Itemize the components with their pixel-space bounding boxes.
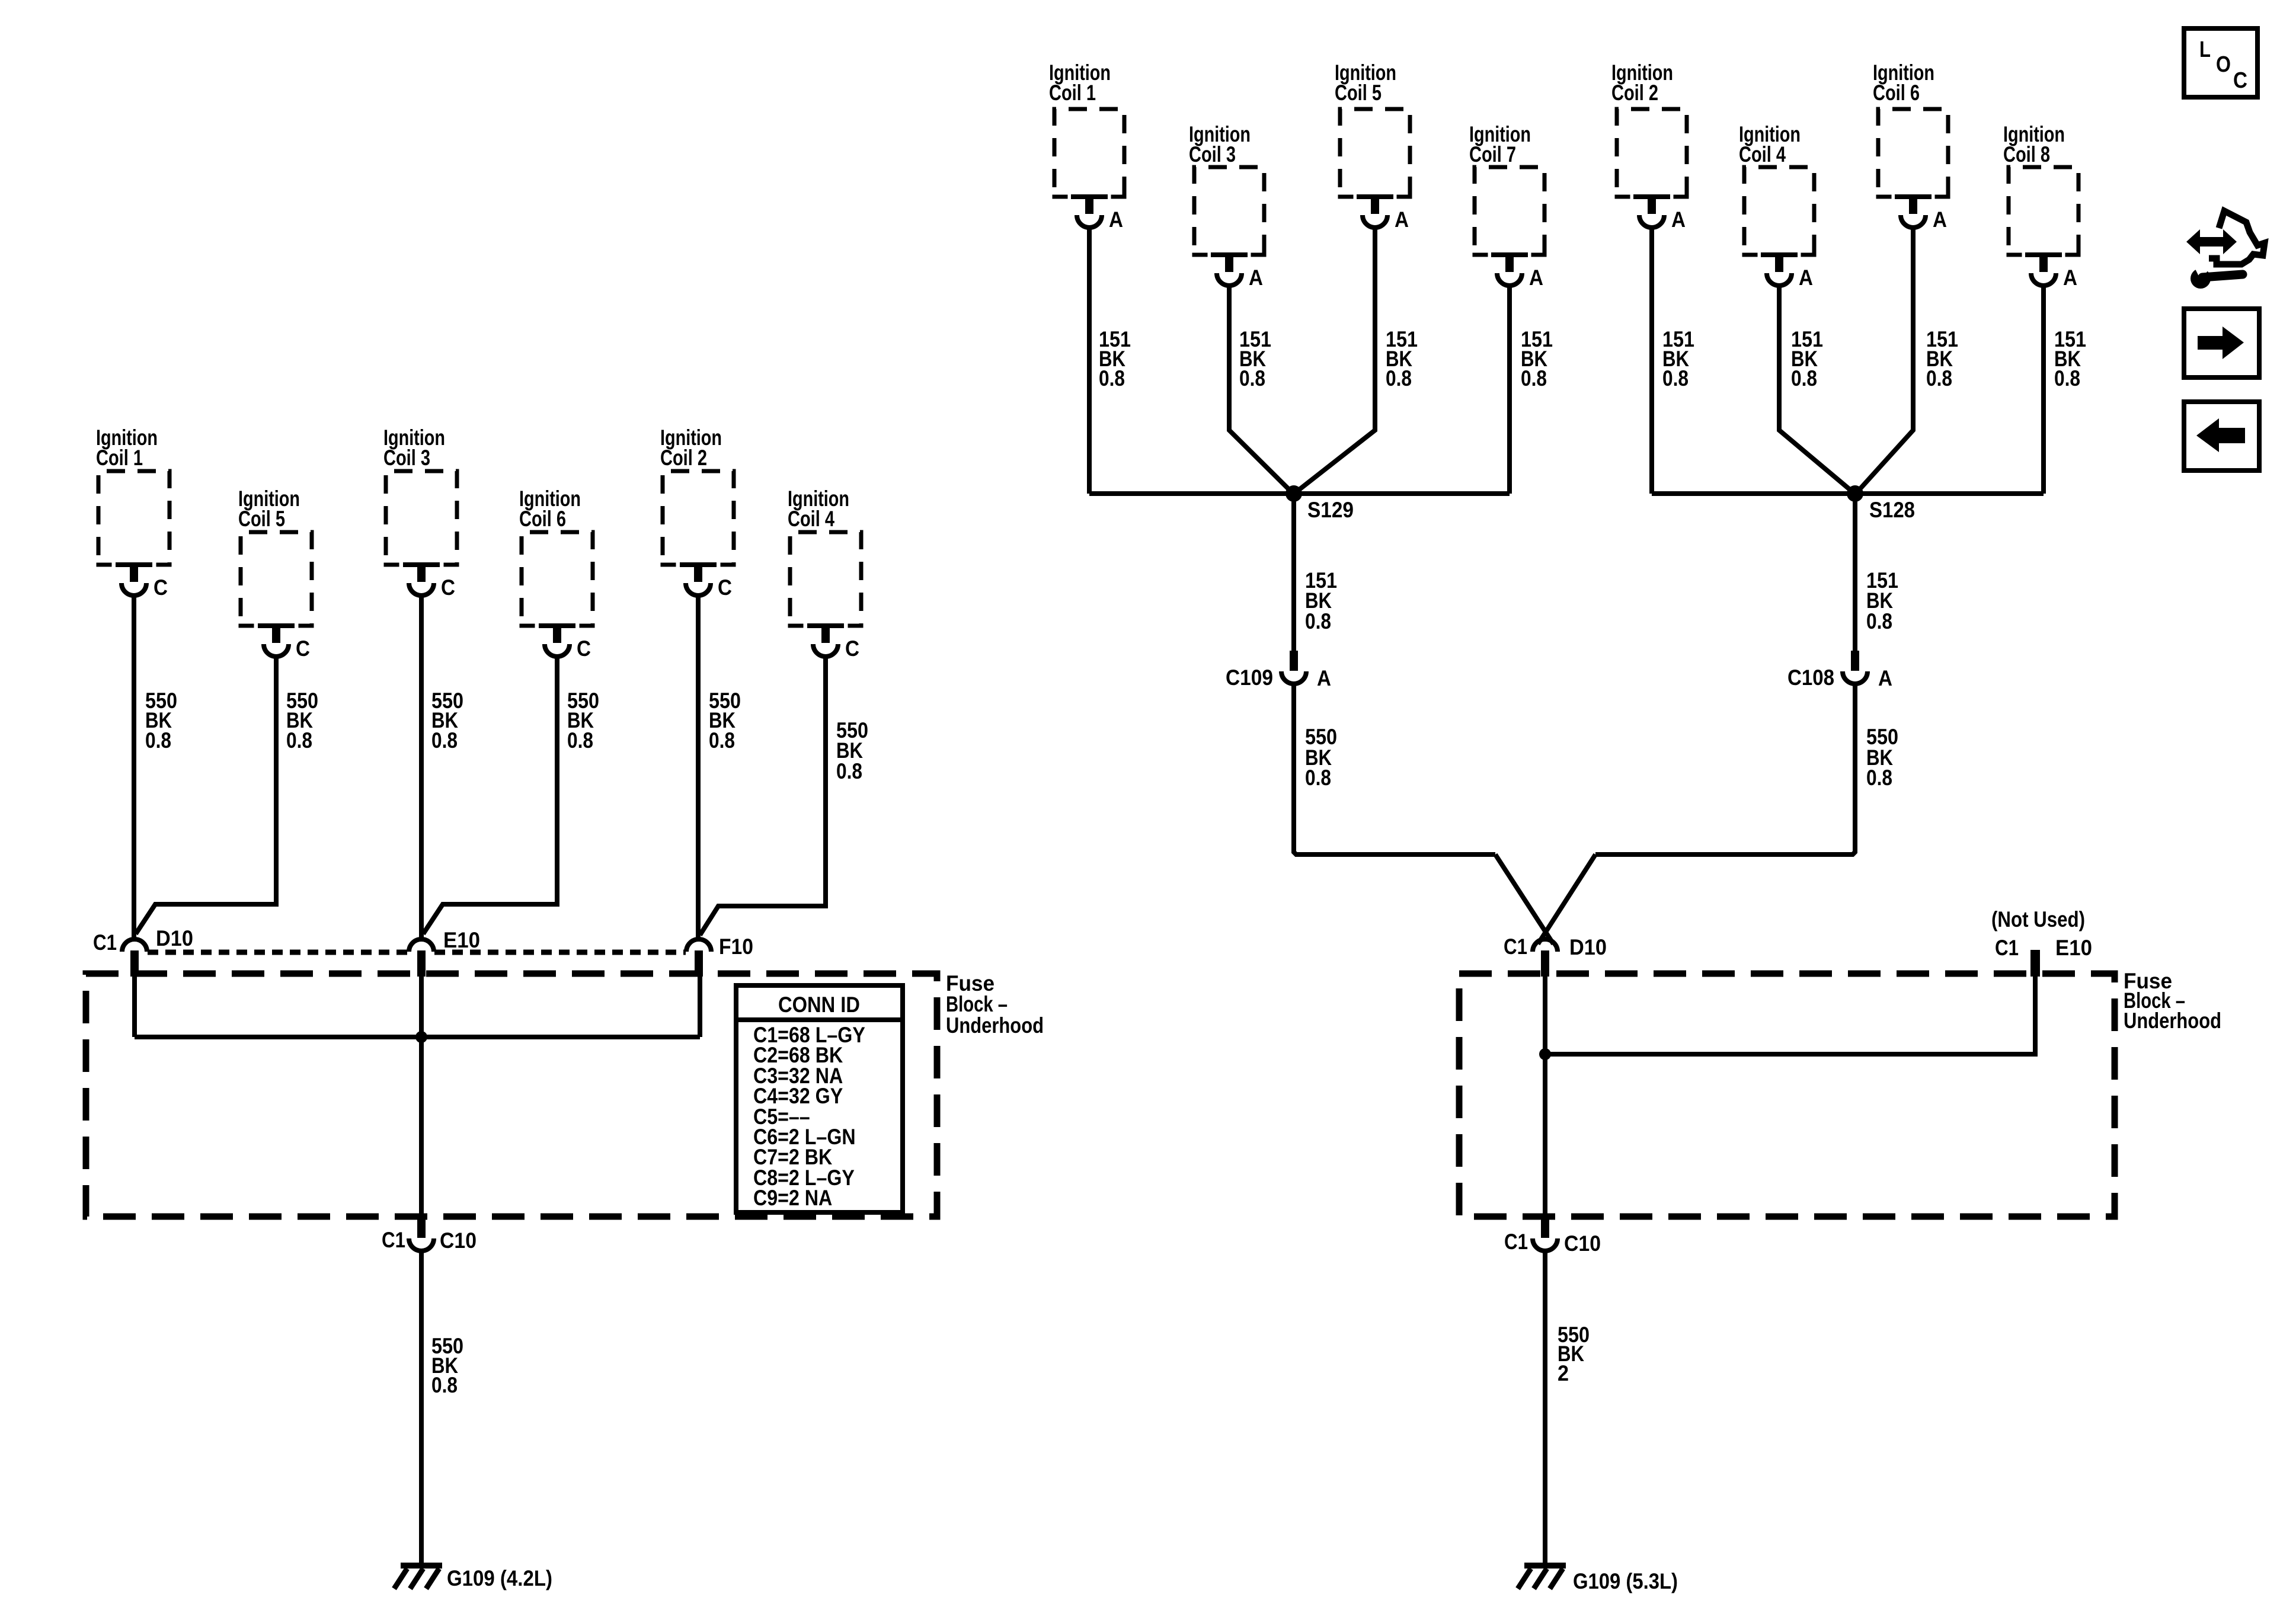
svg-text:C1: C1	[93, 930, 117, 955]
connector C1 dotted line	[148, 950, 686, 955]
svg-text:L: L	[2199, 37, 2211, 62]
wire coil7R 151 BK 0.8	[1510, 286, 1553, 494]
svg-text:C: C	[845, 636, 859, 661]
wire 550 BK 0.8 to ground (4.2L)	[421, 1250, 463, 1565]
wire E10 stub to junction	[1545, 977, 2035, 1054]
wire coil3 550 BK 0.8	[421, 594, 463, 939]
ignition coil 8 (5.3L)	[2003, 122, 2081, 290]
wire coil8R 151 BK 0.8	[2044, 286, 2086, 494]
svg-text:0.8: 0.8	[836, 759, 862, 783]
bus wire inside fuse block	[135, 1035, 700, 1039]
svg-text:C: C	[577, 636, 591, 661]
svg-text:A: A	[1799, 265, 1813, 290]
wire coil4R 151 BK 0.8	[1779, 286, 1853, 492]
svg-text:0.8: 0.8	[1866, 609, 1892, 633]
svg-text:C1: C1	[1504, 1230, 1528, 1254]
ignition coil 6 (4.2L)	[519, 486, 595, 661]
service info icon (double arrow, connector outline, wrench)	[2186, 211, 2265, 289]
fuse block - underhood (4.2L)	[86, 971, 1044, 1217]
svg-text:C: C	[441, 575, 455, 600]
svg-text:A: A	[1395, 207, 1409, 232]
svg-text:S129: S129	[1307, 498, 1354, 522]
ground G109 (4.2L)	[394, 1563, 552, 1590]
svg-text:Coil 6: Coil 6	[1873, 81, 1920, 105]
svg-text:0.8: 0.8	[1305, 609, 1331, 633]
CONN ID table	[736, 985, 903, 1212]
svg-text:Coil 6: Coil 6	[519, 507, 566, 531]
wire E10 down through bus	[419, 977, 424, 1217]
svg-text:0.8: 0.8	[145, 728, 171, 753]
wire coil2R 151 BK 0.8	[1652, 228, 1694, 494]
LOC legend box	[2184, 28, 2257, 97]
svg-text:0.8: 0.8	[1791, 366, 1817, 391]
svg-text:0.8: 0.8	[709, 728, 735, 753]
pin D10 connector C1	[93, 926, 193, 977]
ground G109 (5.3L)	[1518, 1563, 1678, 1593]
svg-text:0.8: 0.8	[1239, 366, 1265, 391]
svg-text:D10: D10	[156, 926, 193, 950]
wire S129 to C109 151 BK 0.8	[1294, 494, 1337, 651]
svg-text:(Not Used): (Not Used)	[1991, 907, 2085, 932]
wire coil5R 151 BK 0.8	[1296, 228, 1418, 492]
svg-text:C10: C10	[1564, 1231, 1601, 1256]
svg-text:C109: C109	[1226, 665, 1273, 690]
svg-text:CONN ID: CONN ID	[778, 993, 860, 1017]
svg-text:Underhood: Underhood	[946, 1013, 1044, 1038]
svg-text:O: O	[2216, 52, 2231, 77]
pin E10 connector C1 (5.3L) not used	[1991, 907, 2092, 977]
wire coil5 550 BK 0.8	[136, 655, 318, 934]
wire C108 550 BK 0.8	[1595, 683, 1898, 854]
connector C1 pin C10 (5.3L)	[1504, 1217, 1601, 1256]
svg-text:0.8: 0.8	[1926, 366, 1952, 391]
svg-text:C: C	[718, 575, 732, 600]
connector C1 pin C10 (4.2L)	[382, 1217, 477, 1253]
svg-text:Coil 1: Coil 1	[96, 446, 143, 470]
wire coil1R 151 BK 0.8	[1089, 228, 1131, 494]
svg-text:C108: C108	[1787, 665, 1834, 690]
connector C108 pin A	[1787, 651, 1892, 690]
svg-text:E10: E10	[443, 928, 480, 952]
svg-text:Block –: Block –	[946, 992, 1008, 1016]
junction node	[415, 1031, 427, 1043]
svg-text:C1: C1	[1995, 936, 2019, 960]
ignition coil 7 (5.3L)	[1469, 122, 1547, 290]
svg-text:A: A	[2063, 265, 2077, 290]
wire bus into S129	[1089, 491, 1510, 496]
svg-text:C: C	[154, 575, 168, 600]
svg-text:C10: C10	[440, 1228, 477, 1253]
svg-text:0.8: 0.8	[567, 728, 593, 753]
svg-text:S128: S128	[1869, 498, 1915, 522]
svg-text:C1: C1	[382, 1228, 405, 1252]
splice S128	[1847, 485, 1915, 522]
wire D10 to bus	[132, 977, 137, 1037]
svg-text:0.8: 0.8	[1305, 766, 1331, 790]
ignition coil 1 (5.3L)	[1049, 60, 1127, 232]
svg-text:0.8: 0.8	[431, 728, 458, 753]
connector C109 pin A	[1226, 651, 1331, 690]
svg-text:A: A	[1878, 666, 1892, 690]
wire coil6R 151 BK 0.8	[1857, 228, 1958, 492]
ignition coil 3 (4.2L)	[383, 425, 459, 600]
pin D10 connector C1 (5.3L)	[1504, 934, 1607, 977]
svg-text:Coil 5: Coil 5	[238, 507, 285, 531]
pin E10 connector C1	[409, 928, 480, 977]
wire bus into S128	[1652, 491, 2044, 496]
wire diagonal into D10 (from C109)	[1495, 854, 1553, 944]
ignition coil 4 (5.3L)	[1739, 122, 1817, 290]
wire coil4 550 BK 0.8	[700, 655, 868, 935]
fuse block - underhood (5.3L)	[1459, 969, 2221, 1217]
wire coil6 550 BK 0.8	[423, 655, 599, 934]
svg-text:0.8: 0.8	[1099, 366, 1125, 391]
wire F10 to bus	[698, 977, 702, 1037]
svg-text:0.8: 0.8	[1386, 366, 1412, 391]
ignition coil 2 (5.3L)	[1611, 60, 1689, 232]
ignition coil 5 (4.2L)	[238, 486, 314, 661]
ignition coil 3 (5.3L)	[1189, 122, 1267, 290]
wire coil2 550 BK 0.8	[698, 594, 741, 939]
splice S129	[1285, 485, 1354, 522]
svg-text:0.8: 0.8	[1866, 766, 1892, 790]
svg-text:Coil 1: Coil 1	[1049, 81, 1096, 105]
svg-text:A: A	[1671, 207, 1686, 232]
ignition coil 2 (4.2L)	[660, 425, 736, 600]
svg-text:Coil 4: Coil 4	[1739, 142, 1786, 167]
ignition coil 1 (4.2L)	[96, 425, 172, 600]
wire coil3R 151 BK 0.8	[1229, 286, 1292, 492]
svg-text:C: C	[296, 636, 310, 661]
ignition coil 5 (5.3L)	[1335, 60, 1412, 232]
wire diagonal into D10 (from C108)	[1538, 854, 1595, 944]
svg-text:C1: C1	[1504, 934, 1527, 959]
svg-text:0.8: 0.8	[286, 728, 312, 753]
svg-text:Underhood: Underhood	[2124, 1009, 2221, 1033]
svg-text:A: A	[1249, 265, 1263, 290]
svg-text:A: A	[1933, 207, 1947, 232]
previous-page arrow icon	[2184, 402, 2259, 470]
svg-text:D10: D10	[1569, 935, 1607, 959]
svg-text:C9=2 NA: C9=2 NA	[753, 1186, 832, 1210]
ignition coil 6 (5.3L)	[1873, 60, 1950, 232]
pin F10 connector C1	[686, 934, 753, 977]
svg-text:F10: F10	[719, 934, 753, 959]
wire D10 down (5.3L)	[1543, 977, 1547, 1217]
svg-text:Coil 4: Coil 4	[788, 507, 834, 531]
svg-text:A: A	[1317, 666, 1331, 690]
svg-text:0.8: 0.8	[2054, 366, 2080, 391]
svg-text:E10: E10	[2055, 936, 2092, 960]
svg-text:0.8: 0.8	[1662, 366, 1689, 391]
svg-text:A: A	[1109, 207, 1123, 232]
wire S128 to C108 151 BK 0.8	[1855, 494, 1898, 651]
next-page arrow icon	[2184, 309, 2259, 377]
svg-text:Coil 8: Coil 8	[2003, 142, 2050, 167]
svg-text:G109 (4.2L): G109 (4.2L)	[447, 1566, 552, 1590]
svg-text:Coil 3: Coil 3	[1189, 142, 1236, 167]
ignition coil 4 (4.2L)	[788, 486, 864, 661]
svg-text:Coil 2: Coil 2	[1611, 81, 1658, 105]
svg-text:0.8: 0.8	[431, 1373, 458, 1397]
svg-text:G109 (5.3L): G109 (5.3L)	[1573, 1569, 1678, 1593]
svg-text:A: A	[1529, 265, 1543, 290]
svg-text:Coil 3: Coil 3	[383, 446, 430, 470]
wire 550 BK 2 to ground (5.3L)	[1545, 1250, 1590, 1565]
svg-text:2: 2	[1558, 1361, 1569, 1385]
svg-text:C: C	[2233, 68, 2247, 93]
svg-text:Coil 7: Coil 7	[1469, 142, 1516, 167]
wire coil1 550 BK 0.8	[134, 594, 177, 939]
svg-text:Coil 5: Coil 5	[1335, 81, 1382, 105]
junction node (5.3L)	[1539, 1048, 1551, 1060]
wire C109 550 BK 0.8	[1294, 683, 1495, 854]
svg-text:0.8: 0.8	[1521, 366, 1547, 391]
svg-text:Coil 2: Coil 2	[660, 446, 707, 470]
